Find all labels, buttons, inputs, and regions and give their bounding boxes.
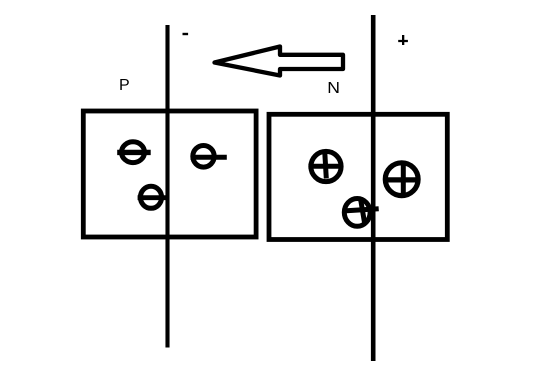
electron symbol e1: [117, 142, 151, 163]
svg-text:N: N: [327, 79, 340, 97]
hole symbol h1: [308, 151, 341, 182]
label + (positive terminal): [398, 35, 408, 45]
hole symbol h2: [385, 162, 420, 198]
electron symbol e2: [138, 186, 169, 208]
label N (N-type region): [327, 79, 340, 97]
P region box: [83, 111, 256, 237]
left electrode wire (negative terminal): [165, 25, 169, 348]
N region box: [269, 114, 447, 239]
svg-text:P: P: [119, 77, 130, 94]
right electrode wire (positive terminal): [371, 15, 376, 361]
label P (P-type region): [119, 77, 130, 94]
label - (negative terminal): [183, 33, 189, 35]
electron symbol e3: [191, 146, 227, 168]
hole symbol h3: [343, 198, 379, 227]
arrow (direction of electron flow): [215, 47, 344, 76]
